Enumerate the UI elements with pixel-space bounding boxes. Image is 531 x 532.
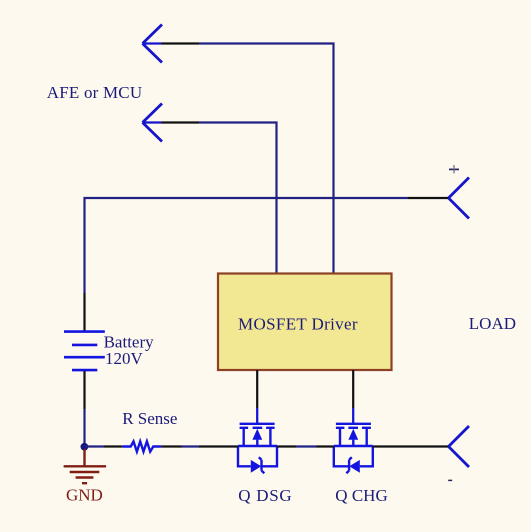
Q CHG left pin (black) bbox=[317, 445, 334, 447]
MOSFET driver box U1 bbox=[218, 274, 392, 371]
svg-text:AFE or MCU: AFE or MCU bbox=[47, 83, 143, 102]
wire net from P1 to MOSFET driver pin (top horizontal + vertical at x=333.5) bbox=[199, 44, 334, 274]
svg-text:Q DSG: Q DSG bbox=[238, 486, 292, 505]
battery BT1 top pin (black) bbox=[83, 293, 85, 331]
wire to Q CHG gate bbox=[352, 408, 354, 423]
Q DSG left pin (black) bbox=[199, 445, 238, 447]
connector P4 chevron - bbox=[449, 426, 470, 467]
ground symbol GND bbox=[64, 449, 107, 483]
wire battery- down to junction bbox=[83, 409, 85, 447]
svg-text:GND: GND bbox=[66, 486, 103, 505]
Q CHG body diode triangle (filled, pointing left) bbox=[349, 460, 360, 473]
Q DSG right pin (black) bbox=[277, 445, 296, 447]
wire R sense to Q DSG bbox=[182, 445, 200, 447]
resistor R sense zigzag bbox=[122, 441, 161, 451]
pin of P1 (black) bbox=[162, 42, 200, 44]
wire to Q DSG gate bbox=[256, 408, 258, 423]
Q CHG right pin + wire to - connector (black) bbox=[373, 445, 449, 447]
pin of + connector (black) bbox=[408, 197, 449, 199]
battery BT1 bottom pin (black) bbox=[83, 371, 85, 409]
wire junction to R sense bbox=[85, 445, 105, 447]
wire net from P2 to MOSFET driver pin (horizontal + vertical at x=276.5) bbox=[199, 123, 277, 274]
resistor R sense right pin (black) bbox=[161, 445, 181, 447]
svg-text:Q CHG: Q CHG bbox=[335, 486, 387, 505]
Q CHG source arrow (filled) bbox=[348, 429, 358, 440]
pin of P2 (black) bbox=[162, 121, 200, 123]
label + of connector P3 bbox=[449, 165, 459, 173]
svg-text:LOAD: LOAD bbox=[469, 314, 516, 333]
battery BT1 plates bbox=[64, 332, 105, 371]
connector P1 arrow to AFE/MCU (top) bbox=[143, 25, 163, 63]
pin U1 to Q CHG gate (black) bbox=[352, 370, 354, 408]
svg-text:MOSFET Driver: MOSFET Driver bbox=[238, 314, 358, 333]
label - of connector P4 bbox=[448, 479, 452, 481]
resistor R sense left pin (black) bbox=[104, 445, 122, 447]
Q DSG source arrow (filled) bbox=[252, 429, 262, 440]
transistor Q DSG (NMOS with body zener diode) bbox=[238, 424, 277, 473]
connector P2 arrow to AFE/MCU (second) bbox=[143, 104, 163, 142]
pin U1 to Q DSG gate (black) bbox=[256, 370, 258, 408]
svg-text:120V: 120V bbox=[105, 349, 144, 368]
wire net BAT+ : left vertical and top horizontal run to + connector bbox=[85, 198, 409, 293]
junction node dot bbox=[81, 443, 89, 451]
transistor Q CHG (NMOS mirrored with body zener diode) bbox=[334, 424, 373, 473]
Q DSG body diode triangle (filled) bbox=[251, 460, 261, 473]
wire between Q DSG and Q CHG bbox=[296, 445, 317, 447]
svg-text:R Sense: R Sense bbox=[122, 409, 177, 428]
connector P3 chevron + bbox=[449, 178, 470, 219]
